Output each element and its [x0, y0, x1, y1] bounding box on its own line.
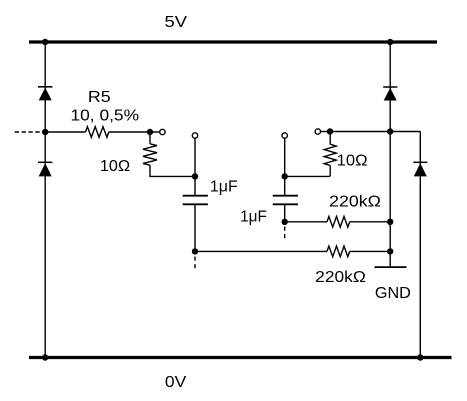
wire node F to resistor 220k upper: [285, 221, 327, 223]
wire node E to resistor 10 ohm right bottom: [285, 175, 330, 177]
wire node I to node J: [330, 131, 390, 133]
value label 220k lower: [315, 269, 366, 286]
junction dot node J: [387, 128, 393, 134]
wire node E to capacitor C2: [284, 176, 286, 195]
svg-text:10Ω: 10Ω: [337, 152, 368, 169]
wire terminal T2 down to node C: [194, 138, 196, 176]
wire dashed left stub: [15, 131, 40, 133]
capacitor C2: [273, 196, 298, 205]
label R5: [88, 89, 111, 106]
resistor R5: [86, 127, 109, 138]
value label 1uF C2: [240, 209, 267, 226]
resistor 220k lower: [327, 246, 350, 257]
wire R5 to node B: [109, 131, 150, 133]
svg-text:GND: GND: [375, 285, 411, 302]
resistor 10 ohm right: [324, 144, 336, 165]
label 5V: [165, 14, 188, 31]
junction dot node A: [42, 129, 48, 135]
wire capacitor C2 to node F: [284, 204, 286, 222]
wire node C to capacitor C1: [194, 176, 196, 195]
wire node B down: [149, 132, 151, 144]
power rail 5V: [29, 40, 437, 43]
wire left vertical branch: [44, 42, 46, 358]
value label 10 ohm left: [100, 158, 130, 175]
svg-text:220kΩ: 220kΩ: [329, 194, 381, 211]
diode D3: [383, 87, 397, 101]
diode D2: [38, 162, 52, 176]
junction dot top rail left: [42, 39, 48, 45]
wire resistor 220k upper to node H: [350, 221, 391, 223]
wire right vertical branch: [389, 42, 391, 267]
svg-text:1μF: 1μF: [210, 179, 238, 196]
wire dashed stub below node F: [284, 227, 286, 239]
terminal T2: [192, 133, 197, 138]
diode D1: [38, 87, 52, 101]
wire node D to resistor 220k lower: [195, 250, 327, 252]
resistor 220k upper: [327, 217, 350, 228]
ground bar: [375, 266, 407, 268]
junction dot node I: [327, 128, 333, 134]
wire resistor bottom to node C: [150, 165, 195, 176]
svg-text:10Ω: 10Ω: [100, 158, 130, 175]
svg-text:1μF: 1μF: [240, 209, 267, 226]
wire resistor 10 ohm right bottom: [329, 165, 331, 176]
wire resistor 220k lower to node G: [350, 250, 391, 252]
svg-text:5V: 5V: [165, 14, 188, 31]
junction dot node F: [282, 219, 288, 225]
capacitor C1: [183, 196, 208, 205]
junction dot node G: [387, 248, 393, 254]
svg-text:10, 0,5%: 10, 0,5%: [71, 107, 140, 124]
svg-text:0V: 0V: [165, 374, 187, 391]
diode D4: [413, 162, 427, 176]
junction dot bottom rail left: [42, 354, 48, 360]
junction dot node E: [282, 173, 288, 179]
terminal T1: [160, 129, 165, 134]
value label 10, 0,5%: [71, 107, 140, 124]
wire capacitor C1 to node D: [194, 204, 196, 251]
svg-text:R5: R5: [88, 89, 111, 106]
terminal T4: [315, 129, 320, 134]
resistor 10 ohm left: [143, 144, 157, 165]
wire dashed stub below node D: [194, 257, 196, 269]
wire node A to R5: [45, 131, 85, 133]
label 0V: [165, 374, 187, 391]
value label 10 ohm right: [337, 152, 368, 169]
wire terminal T3 down to node E: [284, 138, 286, 176]
wire node J to far-right branch: [390, 131, 420, 133]
junction dot node C: [192, 173, 198, 179]
junction dot bottom rail right: [417, 354, 423, 360]
wire far-right vertical branch: [419, 132, 421, 358]
power rail 0V: [29, 356, 452, 359]
junction dot node B: [147, 129, 153, 135]
wire node I down: [329, 132, 331, 145]
junction dot top rail right: [387, 39, 393, 45]
label GND: [375, 285, 411, 302]
terminal T3: [282, 133, 287, 138]
value label 220k upper: [329, 194, 381, 211]
value label 1uF C1: [210, 179, 238, 196]
wire node B to terminal: [150, 131, 160, 133]
junction dot node D: [192, 248, 198, 254]
svg-text:220kΩ: 220kΩ: [315, 269, 366, 286]
wire terminal T4 to node I: [321, 131, 330, 133]
junction dot node H: [387, 219, 393, 225]
